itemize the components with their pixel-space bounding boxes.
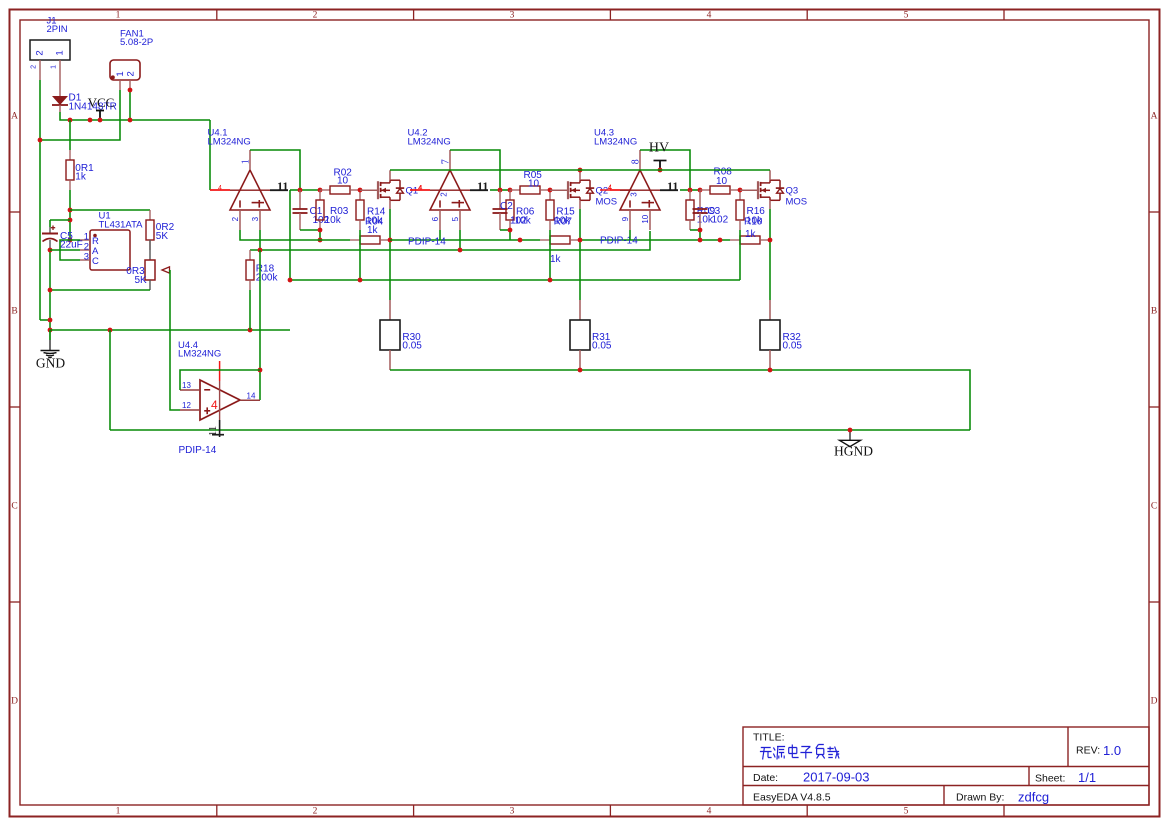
resistor R03 10k <box>316 190 324 230</box>
junction C1/R03 bottom <box>318 228 323 233</box>
svg-text:1: 1 <box>240 159 251 164</box>
capacitor C2 <box>493 190 508 230</box>
wire U4.3 feedback <box>640 150 690 190</box>
wire C5 top feed <box>50 219 70 221</box>
wire Q2 source down <box>579 209 581 300</box>
svg-text:11: 11 <box>477 179 488 193</box>
junction R04 right / Q1 source <box>388 238 393 243</box>
wire Q3 source down <box>769 209 771 300</box>
resistor R09 10k <box>686 190 694 230</box>
svg-text:5: 5 <box>904 807 909 817</box>
wire R06 bottom drop <box>509 230 511 240</box>
junction pin3 / rail <box>258 248 263 253</box>
svg-text:Sheet:: Sheet: <box>1035 773 1065 785</box>
svg-text:R10: R10 <box>744 216 763 227</box>
svg-text:LM324NG: LM324NG <box>178 349 221 360</box>
svg-text:1k: 1k <box>75 172 87 183</box>
wire U1 pin A to C5 <box>50 249 80 251</box>
junction VCC rail / 0R1 <box>68 118 73 123</box>
resistor R32 0.05 <box>760 300 780 370</box>
svg-text:1: 1 <box>116 807 121 817</box>
svg-text:HGND: HGND <box>834 444 873 459</box>
junction feedback / C1 <box>298 188 303 193</box>
svg-text:2: 2 <box>126 71 137 76</box>
wire bottom rail <box>110 429 970 431</box>
junction C5 bottom / U1 pin A <box>48 248 53 253</box>
wire U4.2 feedback <box>450 150 500 190</box>
junction GND rail / drop to bottom <box>108 328 113 333</box>
wire R15 bottom drop <box>549 230 551 280</box>
wire 0R1 bottom column <box>69 190 71 240</box>
svg-text:2017-09-03: 2017-09-03 <box>803 770 870 785</box>
junction R10 right / Q3 source <box>768 238 773 243</box>
junction GND rail / R18 <box>248 328 253 333</box>
capacitor C1 <box>293 190 308 230</box>
svg-text:10k: 10k <box>515 216 532 227</box>
capacitor C5 (electrolytic) <box>42 226 58 251</box>
op-amp U4.1 (LM324 unit 1) <box>210 150 288 230</box>
op-amp U4.3 (LM324 unit 3) <box>600 150 678 230</box>
wire U4.1 node to R03 <box>300 189 320 191</box>
wire J1 pin2 to GND column <box>40 319 50 321</box>
resistor R18 200k <box>246 250 254 290</box>
wire J1 pin2 column <box>39 80 41 320</box>
wire U4.3 pin4 feed (red) <box>610 189 630 191</box>
svg-text:12: 12 <box>182 401 191 410</box>
svg-text:Q2: Q2 <box>596 186 609 197</box>
wire R16 bottom to mid rail <box>739 230 741 280</box>
wire VCC rail to U4.1 pin4 <box>209 120 211 190</box>
resistor R08 10 <box>700 186 740 194</box>
wire U4.4 pin13 loop <box>180 370 260 390</box>
resistor R07 1k <box>540 236 580 244</box>
op-amp U4.4 (LM324 unit 4) <box>180 361 260 437</box>
svg-text:102: 102 <box>712 214 729 225</box>
wire non-inverting rail (y=250) <box>250 231 650 250</box>
svg-text:3: 3 <box>630 192 639 197</box>
svg-text:11: 11 <box>667 179 678 193</box>
junction HGND / bottom rail <box>848 428 853 433</box>
svg-text:5: 5 <box>451 216 460 221</box>
junction HV / rail <box>658 168 663 173</box>
svg-text:200k: 200k <box>256 272 279 283</box>
svg-text:2: 2 <box>35 50 46 55</box>
resistor R16 10k <box>736 190 744 230</box>
junction R08 / R16 / Q3 gate <box>738 188 743 193</box>
junction 0R1 / U1 pin R wire <box>68 238 73 243</box>
wire GND rail <box>50 329 290 331</box>
junction feedback / R09 <box>688 188 693 193</box>
junction pin5 / rail <box>458 248 463 253</box>
svg-text:10: 10 <box>528 179 540 190</box>
svg-text:4: 4 <box>707 807 712 817</box>
svg-text:HV: HV <box>649 141 669 156</box>
wire C3 bottom drop <box>699 230 701 240</box>
junction out-node / mid rail <box>288 278 293 283</box>
svg-text:10: 10 <box>337 176 349 187</box>
junction R06 / R05 <box>508 188 513 193</box>
wire U4.1 feedback <box>250 150 300 190</box>
svg-text:2: 2 <box>440 192 449 197</box>
svg-text:7: 7 <box>440 159 451 164</box>
junction feedback / C2 <box>498 188 503 193</box>
junction VCC rail / FAN pin2 <box>128 118 133 123</box>
svg-text:1k: 1k <box>550 254 562 265</box>
svg-text:VCC: VCC <box>88 95 115 110</box>
svg-text:0.05: 0.05 <box>783 340 803 351</box>
junction R31 / shunt rail <box>578 368 583 373</box>
svg-text:1: 1 <box>115 71 126 76</box>
svg-text:5K: 5K <box>156 231 169 242</box>
svg-text:2: 2 <box>313 11 318 21</box>
svg-text:B: B <box>11 307 17 317</box>
wire VCC rail <box>60 112 210 120</box>
resistor R15 10k <box>546 190 554 230</box>
svg-text:C: C <box>1151 502 1157 512</box>
junction Q2 drain / HV rail <box>578 168 583 173</box>
junction GND column / 0R3 bottom <box>48 288 53 293</box>
junction R32 / shunt rail <box>768 368 773 373</box>
svg-text:2: 2 <box>313 807 318 817</box>
power flag VCC <box>96 111 104 121</box>
wire U4.3 out node <box>680 189 690 191</box>
svg-text:11: 11 <box>277 179 288 193</box>
svg-text:TL431ATA: TL431ATA <box>99 220 144 231</box>
svg-text:R07: R07 <box>554 217 573 228</box>
wire U4.2 pin5 drop <box>459 230 461 250</box>
svg-text:MOS: MOS <box>786 197 808 208</box>
wire FAN1 pin2 drop <box>129 90 131 120</box>
resistor R14 10k <box>356 190 364 230</box>
junction R14 / mid rail <box>358 278 363 283</box>
junction R03 to input rail <box>318 238 323 243</box>
svg-text:GND: GND <box>36 356 65 371</box>
potentiometer R3 (0R3 5K) <box>145 240 170 290</box>
svg-text:3: 3 <box>251 216 260 221</box>
junction GND column / J1 wire <box>48 318 53 323</box>
wire inverting input rail (y=240) seg1 <box>240 230 350 240</box>
resistor R05 10 <box>510 186 550 194</box>
junction y240 rail stub 2 <box>718 238 723 243</box>
transistor Q3 <box>740 170 784 209</box>
wire Q1 source down <box>389 209 391 300</box>
svg-text:LM324NG: LM324NG <box>594 137 637 148</box>
svg-text:PDIP-14: PDIP-14 <box>179 445 217 456</box>
svg-text:REV:: REV: <box>1076 745 1100 757</box>
junction C3 / R08 <box>698 188 703 193</box>
wire U4.2 out node <box>490 189 500 191</box>
junction GND column / GND rail <box>48 328 53 333</box>
svg-text:PDIP-14: PDIP-14 <box>600 236 638 247</box>
svg-text:C: C <box>92 256 99 267</box>
svg-text:4: 4 <box>218 185 222 192</box>
wire 0R3 wiper drop <box>169 270 171 330</box>
resistor R10 1k <box>730 236 770 244</box>
resistor R02 10 <box>320 186 360 194</box>
junction R09/C3 bottom <box>698 228 703 233</box>
wire 0R2 top feed <box>70 209 150 211</box>
svg-text:14: 14 <box>247 391 256 400</box>
svg-text:A: A <box>1151 112 1158 122</box>
resistor R1 (0R1 1k) <box>66 150 74 190</box>
wire C5 top drop <box>49 220 51 227</box>
junction R07 right / Q2 source <box>578 238 583 243</box>
junction follower / U4.4 feedback <box>258 368 263 373</box>
junction R15 / mid rail <box>548 278 553 283</box>
transistor Q2 <box>550 170 594 209</box>
wire shunt rail (y=370) <box>390 370 970 430</box>
svg-text:4: 4 <box>211 398 218 412</box>
junction R02 / R14 / Q1 gate <box>358 188 363 193</box>
svg-text:6: 6 <box>431 216 440 221</box>
svg-text:1/1: 1/1 <box>1078 770 1096 785</box>
svg-text:3: 3 <box>84 252 89 263</box>
ground GND <box>41 330 60 358</box>
svg-text:1k: 1k <box>367 225 379 236</box>
svg-text:Date:: Date: <box>753 772 778 784</box>
resistor R31 0.05 <box>570 300 590 370</box>
wire 0R3 bottom to GND column <box>50 289 150 291</box>
svg-text:MOS: MOS <box>596 197 618 208</box>
resistor R04 1k <box>350 236 390 244</box>
svg-text:5: 5 <box>904 11 909 21</box>
wire U4.1 pin4 feed (red) <box>210 189 230 191</box>
svg-text:Q3: Q3 <box>786 186 799 197</box>
svg-text:D: D <box>1151 697 1158 707</box>
svg-text:8: 8 <box>630 159 641 164</box>
junction FAN pin2 wire <box>128 88 133 93</box>
junction FAN loop / J1 column <box>38 138 43 143</box>
svg-text:C: C <box>11 502 17 512</box>
svg-text:4: 4 <box>418 185 422 192</box>
junction VCC rail mid <box>88 118 93 123</box>
junction VCC rail / VCC flag <box>98 118 103 123</box>
capacitor C3 <box>693 190 708 230</box>
wire C1 bottom to R03 bottom <box>300 229 320 231</box>
wire U4.1 pin3 drop <box>259 230 261 250</box>
wire U4.2 pin4 feed (red) <box>410 189 430 191</box>
wire inverting input rail seg3 <box>580 239 730 241</box>
regulator U1 TL431ATA <box>80 230 130 270</box>
junction R05 / R15 / Q2 gate <box>548 188 553 193</box>
svg-text:10: 10 <box>716 176 728 187</box>
svg-text:LM324NG: LM324NG <box>408 137 451 148</box>
wire GND rail drop <box>109 330 111 430</box>
svg-text:A: A <box>11 112 18 122</box>
wire U4.3 pin9 drop <box>629 230 631 240</box>
svg-text:4: 4 <box>608 185 612 192</box>
wire R09 bottom to C3 bottom <box>690 229 700 231</box>
svg-text:0.05: 0.05 <box>592 340 612 351</box>
wire mid rail (y=280) <box>290 279 740 281</box>
svg-text:5K: 5K <box>135 275 148 286</box>
svg-text:3: 3 <box>510 11 515 21</box>
wire R03 bottom drop <box>319 230 321 240</box>
op-amp U4.2 (LM324 unit 2) <box>410 150 488 230</box>
svg-text:zdfcg: zdfcg <box>1018 790 1049 805</box>
resistor R06 10k <box>506 190 514 230</box>
svg-text:22uF: 22uF <box>60 240 83 251</box>
power flag HV <box>654 161 667 171</box>
svg-text:B: B <box>1151 307 1157 317</box>
junction 0R1 / 0R2 wire <box>68 208 73 213</box>
wire follower column <box>259 250 261 400</box>
resistor R2 (0R2 5K) <box>146 210 154 250</box>
svg-text:TITLE:: TITLE: <box>753 732 785 744</box>
wire U4.4 pin12 feed <box>170 330 180 410</box>
svg-text:1: 1 <box>55 50 66 55</box>
wire R18 bottom drop <box>249 290 251 330</box>
wire inverting input rail seg2 <box>390 239 540 241</box>
junction 0R1 / C5 wire <box>68 218 73 223</box>
junction C3 / y240 rail <box>698 238 703 243</box>
wire C2 bottom to R06 bottom <box>500 229 510 231</box>
svg-text:Q1: Q1 <box>406 186 419 197</box>
svg-text:11: 11 <box>207 426 219 437</box>
svg-text:EasyEDA V4.8.5: EasyEDA V4.8.5 <box>753 792 831 804</box>
svg-text:1k: 1k <box>745 229 757 240</box>
svg-text:9: 9 <box>621 216 630 221</box>
svg-text:2PIN: 2PIN <box>47 24 68 35</box>
wire U4.1 out node to C1 <box>290 189 300 191</box>
svg-text:D: D <box>11 697 18 707</box>
svg-text:10k: 10k <box>325 215 342 226</box>
wire HV rail (y=170) <box>390 169 770 171</box>
connector J1 <box>30 40 70 80</box>
svg-text:1.0: 1.0 <box>1103 743 1121 758</box>
diode D1 <box>52 80 68 112</box>
junction R03 / R02 <box>318 188 323 193</box>
wire R14 bottom drop <box>359 230 361 280</box>
transistor Q1 <box>360 170 404 209</box>
svg-text:2: 2 <box>30 65 37 69</box>
junction C2/R06 bottom <box>508 228 513 233</box>
svg-text:Drawn By:: Drawn By: <box>956 792 1004 804</box>
svg-text:1: 1 <box>116 11 121 21</box>
resistor R30 0.05 <box>380 300 400 370</box>
wire FAN1 pin1 loop <box>40 90 120 140</box>
ground flag HGND <box>840 430 861 447</box>
svg-text:4: 4 <box>707 11 712 21</box>
svg-text:5.08-2P: 5.08-2P <box>120 37 153 48</box>
svg-text:0.05: 0.05 <box>402 340 422 351</box>
junction y240 rail stub <box>518 238 523 243</box>
svg-text:13: 13 <box>182 381 191 390</box>
svg-text:LM324NG: LM324NG <box>208 137 251 148</box>
fan connector FAN1 <box>110 60 140 90</box>
wire U4.3 node to R08 <box>690 189 700 191</box>
wire U4.2 pin6 drop <box>439 230 441 240</box>
wire U4.2 node to R05 <box>500 189 510 191</box>
svg-text:2: 2 <box>231 216 240 221</box>
svg-text:3: 3 <box>510 807 515 817</box>
wire U4.1 out node drop <box>289 190 291 280</box>
wire 0R1 top <box>69 120 71 150</box>
wire U1 pin R loop <box>60 240 80 260</box>
svg-text:1: 1 <box>50 65 57 69</box>
svg-text:10: 10 <box>641 214 650 223</box>
wire C5 bottom / GND column <box>49 250 51 330</box>
